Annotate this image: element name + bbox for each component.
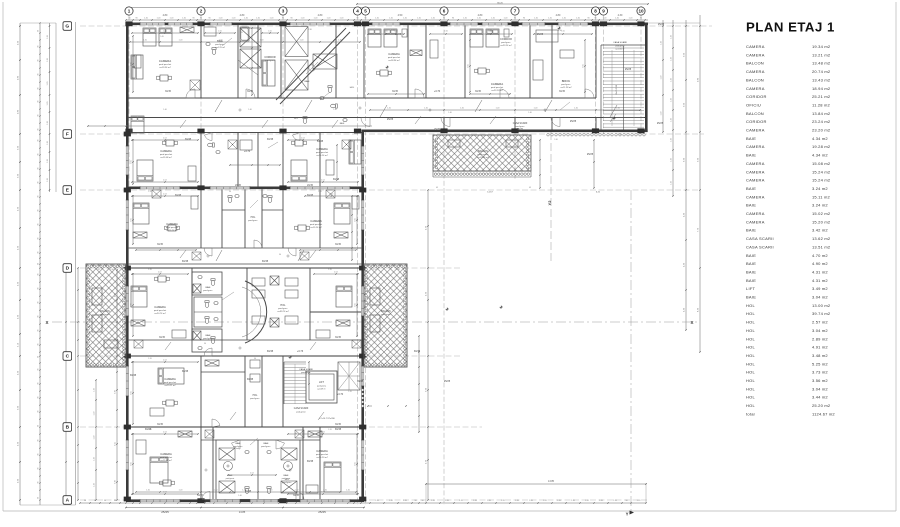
svg-text:90: 90 [135, 18, 137, 20]
svg-text:90: 90 [523, 18, 525, 20]
svg-text:1.20: 1.20 [328, 429, 332, 431]
svg-text:CAMERA: CAMERA [316, 449, 328, 453]
svg-text:90: 90 [254, 358, 256, 360]
svg-text:3.90: 3.90 [115, 480, 117, 484]
svg-text:HOL: HOL [746, 336, 756, 341]
svg-text:BAIE: BAIE [746, 269, 756, 274]
svg-text:25/25: 25/25 [658, 23, 665, 26]
svg-text:4.52: 4.52 [301, 138, 305, 140]
svg-text:pard.parchet: pard.parchet [388, 56, 401, 59]
svg-text:X: X [45, 320, 48, 325]
svg-text:4.52: 4.52 [334, 272, 338, 274]
svg-text:CAMERA: CAMERA [160, 452, 172, 456]
svg-text:LIFT: LIFT [319, 381, 324, 384]
svg-text:pard.gres.: pard.gres. [381, 313, 391, 316]
svg-text:1.20: 1.20 [182, 18, 186, 20]
svg-text:BAIE: BAIE [284, 474, 290, 477]
corridor walls top wing [129, 97, 596, 99]
svg-text:pard.gresie: pard.gresie [478, 153, 490, 156]
top wing bottom wall right part [364, 130, 648, 133]
svg-text:23.24 m2: 23.24 m2 [812, 119, 831, 124]
left grid connector [75, 22, 77, 505]
staircase top right [600, 45, 602, 130]
svg-text:5.45: 5.45 [391, 30, 395, 32]
svg-text:BAIE: BAIE [746, 253, 756, 258]
svg-text:30/45: 30/45 [307, 194, 314, 197]
svg-text:4.80: 4.80 [163, 14, 168, 17]
svg-text:90: 90 [38, 140, 40, 142]
structural piers [125, 21, 132, 26]
svg-text:1.20: 1.20 [661, 112, 663, 116]
svg-text:3.05: 3.05 [583, 64, 585, 68]
svg-text:CAMERA: CAMERA [746, 69, 765, 74]
bathroom G2 [204, 27, 216, 36]
svg-text:1.20: 1.20 [47, 82, 49, 86]
balcony hatch B3 right [364, 264, 407, 367]
svg-text:3.04 m2: 3.04 m2 [812, 386, 828, 391]
svg-text:3.05: 3.05 [468, 64, 470, 68]
svg-text:25/25: 25/25 [625, 68, 632, 71]
svg-text:CAMERA: CAMERA [154, 305, 166, 309]
svg-text:4.52: 4.52 [321, 180, 325, 182]
svg-text:36/45: 36/45 [357, 380, 364, 383]
B1 bottom railing [433, 170, 531, 172]
svg-text:1.20: 1.20 [576, 18, 580, 20]
svg-text:4.80: 4.80 [478, 14, 483, 17]
svg-text:15.08 m2: 15.08 m2 [812, 161, 831, 166]
svg-text:a=23.24 m²: a=23.24 m² [500, 44, 511, 47]
svg-text:25/25: 25/25 [587, 153, 594, 156]
windows E wall [140, 186, 180, 189]
svg-text:25/25: 25/25 [434, 128, 441, 131]
svg-text:1.20: 1.20 [148, 429, 152, 431]
vertical grid dashed lines [128, 15, 130, 192]
svg-text:30/45: 30/45 [182, 260, 189, 263]
svg-text:45: 45 [436, 187, 438, 189]
svg-text:1.20: 1.20 [375, 18, 379, 20]
svg-text:pard.parchet: pard.parchet [160, 153, 173, 156]
svg-text:a=20.74 m²: a=20.74 m² [154, 312, 165, 315]
svg-text:CASA SCARII: CASA SCARII [513, 122, 528, 125]
svg-text:4.91 m2: 4.91 m2 [812, 345, 828, 350]
svg-text:BALCON: BALCON [746, 111, 764, 116]
svg-text:4.70 m2: 4.70 m2 [812, 253, 828, 258]
core bathroom fixtures right of grid3 [328, 86, 332, 93]
svg-text:HOL: HOL [280, 304, 286, 307]
svg-text:1.20: 1.20 [574, 108, 578, 110]
svg-text:5.25 m2: 5.25 m2 [812, 361, 828, 366]
furniture B-A rooms [150, 457, 168, 483]
svg-text:CAMERA: CAMERA [746, 194, 765, 199]
svg-text:1.20: 1.20 [47, 102, 49, 106]
svg-text:4.80: 4.80 [240, 14, 245, 17]
svg-text:90: 90 [38, 497, 40, 499]
svg-text:1.20: 1.20 [616, 108, 620, 110]
svg-text:90: 90 [421, 500, 423, 502]
svg-text:1.50: 1.50 [268, 31, 272, 33]
diagonal corridor [276, 28, 346, 100]
svg-text:3.42 m2: 3.42 m2 [812, 228, 828, 233]
svg-text:HOL: HOL [746, 320, 756, 325]
extra density: wall-side vertical beds [131, 116, 144, 133]
svg-text:30/45: 30/45 [130, 374, 137, 377]
svg-text:3.24 m2: 3.24 m2 [812, 203, 828, 208]
svg-text:CAMERA: CAMERA [746, 169, 765, 174]
svg-text:9: 9 [602, 9, 605, 14]
svg-text:30/45: 30/45 [267, 138, 274, 141]
svg-text:90: 90 [128, 18, 130, 20]
svg-text:pard.gres.: pard.gres. [278, 307, 288, 310]
svg-text:13.62 m2: 13.62 m2 [812, 236, 831, 241]
svg-text:pard.parchet: pard.parchet [310, 223, 323, 226]
svg-text:90: 90 [38, 210, 40, 212]
svg-text:1.20: 1.20 [487, 500, 491, 502]
svg-text:BAIE: BAIE [746, 261, 756, 266]
svg-text:CAMERA: CAMERA [746, 52, 765, 57]
svg-text:15.11 m2: 15.11 m2 [812, 194, 831, 199]
svg-text:1.50: 1.50 [384, 31, 388, 33]
svg-text:90: 90 [38, 252, 40, 254]
E-D partitions [200, 189, 202, 248]
svg-text:1.20: 1.20 [431, 18, 435, 20]
top secondary dimension line [126, 19, 648, 21]
svg-text:90: 90 [38, 46, 40, 48]
svg-text:90: 90 [208, 18, 210, 20]
svg-text:pard.gresie: pard.gresie [616, 45, 625, 47]
svg-text:pard.gres.: pard.gres. [250, 397, 260, 400]
svg-text:a=3.49 m²: a=3.49 m² [317, 388, 326, 391]
svg-text:pard.parchet: pard.parchet [316, 453, 329, 456]
svg-text:1.20: 1.20 [47, 121, 49, 125]
svg-text:1.20: 1.20 [424, 108, 428, 110]
svg-text:4.30: 4.30 [558, 30, 562, 32]
tower row walls D C B [129, 267, 362, 269]
svg-text:90: 90 [38, 344, 40, 346]
svg-text:4.90 m2: 4.90 m2 [812, 261, 828, 266]
svg-text:1.20: 1.20 [534, 18, 538, 20]
svg-text:BAIE: BAIE [340, 122, 345, 125]
svg-text:a=11.28 m²: a=11.28 m² [561, 86, 572, 89]
svg-text:30/45: 30/45 [159, 336, 166, 339]
svg-text:CAMERA: CAMERA [746, 144, 765, 149]
svg-text:4.31 m2: 4.31 m2 [812, 278, 828, 283]
svg-text:13.00 m2: 13.00 m2 [812, 303, 831, 308]
svg-text:1.20: 1.20 [47, 159, 49, 163]
svg-text:11.28 m2: 11.28 m2 [812, 102, 831, 107]
left lower dim chains [65, 268, 67, 500]
svg-text:pard.gres.: pard.gres. [203, 289, 213, 292]
svg-text:2.89 m2: 2.89 m2 [812, 336, 828, 341]
svg-text:a=4.70 m²: a=4.70 m² [215, 46, 225, 49]
svg-text:5.45: 5.45 [488, 30, 492, 32]
svg-text:4.31 m2: 4.31 m2 [812, 269, 828, 274]
svg-text:BAIE: BAIE [746, 203, 756, 208]
bottom tower dimension [126, 507, 364, 509]
svg-text:30/45: 30/45 [475, 90, 482, 93]
svg-text:90: 90 [279, 254, 281, 256]
svg-text:1.20: 1.20 [637, 500, 641, 502]
svg-text:2.40: 2.40 [554, 139, 558, 141]
svg-text:90: 90 [38, 74, 40, 76]
svg-text:1.20: 1.20 [661, 76, 663, 80]
svg-text:90: 90 [38, 468, 40, 470]
balcony loungers [92, 288, 102, 305]
svg-text:1.20: 1.20 [661, 41, 663, 45]
stairs C-B left flight [283, 362, 285, 404]
svg-text:CORIDOR: CORIDOR [746, 119, 767, 124]
svg-text:HOL: HOL [746, 370, 756, 375]
svg-text:BALCON: BALCON [100, 310, 110, 313]
svg-text:90: 90 [38, 154, 40, 156]
svg-text:4.80: 4.80 [318, 14, 323, 17]
svg-text:30/45: 30/45 [392, 90, 399, 93]
svg-text:1.20: 1.20 [515, 500, 519, 502]
svg-text:80.26: 80.26 [497, 2, 503, 4]
svg-text:1.20: 1.20 [460, 108, 464, 110]
svg-text:pard.gres.: pard.gres. [100, 313, 110, 316]
svg-text:1.20: 1.20 [219, 40, 223, 42]
svg-text:1.20: 1.20 [671, 98, 673, 102]
svg-text:90: 90 [290, 18, 292, 20]
svg-text:HOL: HOL [251, 217, 256, 219]
svg-text:1.20: 1.20 [214, 490, 218, 492]
svg-text:1.95: 1.95 [239, 32, 243, 34]
svg-text:39.74 m2: 39.74 m2 [812, 311, 831, 316]
svg-text:BIROU: BIROU [562, 79, 571, 83]
section line Y2 [550, 132, 552, 262]
svg-text:18x15.5/28: 18x15.5/28 [616, 84, 618, 95]
svg-text:HOL: HOL [746, 378, 756, 383]
svg-text:90: 90 [625, 500, 627, 502]
svg-text:HOL: HOL [746, 395, 756, 400]
svg-text:30/45: 30/45 [245, 490, 252, 493]
svg-text:BAIE: BAIE [746, 186, 756, 191]
lift [306, 371, 337, 403]
railing dots below wing [547, 134, 550, 137]
svg-text:CAMERA: CAMERA [160, 149, 172, 153]
svg-text:4.52: 4.52 [163, 360, 167, 362]
svg-text:15.24 m2: 15.24 m2 [812, 169, 831, 174]
B1 side dots [435, 138, 437, 140]
west exterior wall [126, 23, 129, 503]
svg-text:a=13.84 m²: a=13.84 m² [477, 156, 488, 159]
windows tower east wall [361, 146, 364, 175]
svg-text:1.20: 1.20 [543, 500, 547, 502]
svg-text:90: 90 [38, 88, 40, 90]
svg-text:BAIE: BAIE [264, 442, 270, 445]
svg-text:25.21 m2: 25.21 m2 [812, 94, 831, 99]
svg-text:pard.parchet: pard.parchet [160, 456, 173, 459]
svg-text:90: 90 [38, 274, 40, 276]
svg-text:13.51 m2: 13.51 m2 [812, 244, 831, 249]
svg-text:4.52: 4.52 [163, 194, 167, 196]
svg-text:1.20: 1.20 [562, 18, 566, 20]
svg-text:Y2: Y2 [547, 200, 552, 206]
svg-text:4.52: 4.52 [321, 432, 325, 434]
svg-text:1.20: 1.20 [389, 18, 393, 20]
svg-text:pard.gres.: pard.gres. [501, 41, 511, 44]
svg-text:pard.parchet: pard.parchet [159, 63, 172, 66]
svg-text:a=13.62 m²: a=13.62 m² [615, 47, 625, 50]
svg-text:10: 10 [638, 9, 644, 14]
svg-text:pard.parchet: pard.parchet [154, 309, 167, 312]
svg-text:3.05: 3.05 [131, 160, 133, 164]
svg-text:20/45: 20/45 [235, 184, 242, 187]
svg-text:a=15.08 m²: a=15.08 m² [160, 156, 171, 159]
east rail dots [362, 389, 364, 391]
svg-text:BALCON: BALCON [478, 150, 488, 153]
svg-text:1.20: 1.20 [327, 18, 331, 20]
svg-text:30/45: 30/45 [559, 90, 566, 93]
svg-text:4.50: 4.50 [398, 14, 403, 17]
svg-text:CORIDOR: CORIDOR [746, 94, 767, 99]
furniture F-E rooms [137, 160, 153, 181]
svg-text:3.05: 3.05 [355, 303, 357, 307]
svg-text:90: 90 [84, 500, 86, 502]
svg-text:1.20: 1.20 [94, 412, 96, 416]
svg-text:1.20: 1.20 [459, 500, 463, 502]
svg-text:HOL: HOL [746, 345, 756, 350]
svg-text:1.20: 1.20 [346, 490, 350, 492]
svg-text:30/45: 30/45 [335, 336, 342, 339]
svg-text:C: C [66, 354, 70, 360]
svg-text:3.05: 3.05 [131, 303, 133, 307]
svg-text:1.20: 1.20 [295, 490, 299, 492]
top wing top wall [126, 23, 648, 26]
svg-text:OFICIU: OFICIU [746, 102, 761, 107]
bottom right dimension [426, 483, 646, 485]
left dimension lines [19, 23, 21, 505]
svg-text:a=15.24 m²: a=15.24 m² [166, 229, 177, 232]
svg-text:90: 90 [38, 356, 40, 358]
corridor diagonal door leaves extra [180, 120, 186, 128]
svg-text:1.50: 1.50 [561, 31, 565, 33]
svg-text:90: 90 [38, 454, 40, 456]
svg-text:25.20 m2: 25.20 m2 [812, 403, 831, 408]
svg-text:HOL: HOL [746, 386, 756, 391]
micro dims tower bands [132, 195, 198, 197]
svg-text:1.20: 1.20 [148, 358, 152, 360]
svg-text:3.05: 3.05 [131, 462, 133, 466]
svg-text:3.04 m2: 3.04 m2 [812, 295, 828, 300]
svg-text:30/45: 30/45 [262, 260, 269, 263]
svg-text:25/25: 25/25 [387, 118, 394, 121]
furniture D-C rooms [131, 286, 147, 307]
stairs C-B winder [338, 362, 360, 390]
svg-text:pard.gres.: pard.gres. [561, 83, 571, 86]
svg-text:a=19.34 m²: a=19.34 m² [159, 66, 170, 69]
svg-text:4.52: 4.52 [163, 138, 167, 140]
svg-text:1.20: 1.20 [143, 40, 147, 42]
svg-text:90: 90 [204, 343, 206, 345]
svg-text:4.34 m2: 4.34 m2 [812, 136, 828, 141]
svg-text:1.50: 1.50 [218, 31, 222, 33]
svg-text:a=23.20 m²: a=23.20 m² [491, 89, 502, 92]
svg-text:1.20: 1.20 [603, 18, 607, 20]
svg-text:90: 90 [38, 288, 40, 290]
svg-text:pard.parchet: pard.parchet [166, 226, 179, 229]
svg-text:a=15.11 m²: a=15.11 m² [165, 384, 176, 387]
svg-text:4.52: 4.52 [163, 180, 167, 182]
svg-text:A: A [66, 498, 70, 504]
svg-text:BAIE: BAIE [305, 80, 311, 83]
svg-text:LIFT: LIFT [746, 286, 756, 291]
svg-text:2.30: 2.30 [308, 29, 312, 31]
svg-text:1.20: 1.20 [504, 18, 508, 20]
svg-text:CAMERA: CAMERA [746, 128, 765, 133]
svg-text:1.20: 1.20 [179, 490, 183, 492]
svg-text:1.20: 1.20 [242, 490, 246, 492]
leader line labels near cores [222, 38, 232, 46]
svg-text:3.24 m2: 3.24 m2 [812, 186, 828, 191]
svg-text:1.20: 1.20 [300, 40, 304, 42]
svg-text:1.20: 1.20 [491, 18, 495, 20]
D-C partitions [191, 268, 193, 340]
svg-text:CAMERA: CAMERA [491, 82, 503, 86]
svg-text:HOL: HOL [253, 395, 258, 397]
svg-text:13.85: 13.85 [548, 480, 555, 483]
svg-text:25/25: 25/25 [570, 120, 577, 123]
F-E band partitions [129, 132, 364, 134]
svg-text:30/45: 30/45 [175, 194, 182, 197]
svg-text:30/45: 30/45 [267, 350, 274, 353]
svg-text:1.20: 1.20 [256, 18, 260, 20]
svg-text:30/45: 30/45 [157, 423, 164, 426]
svg-text:90: 90 [587, 18, 589, 20]
svg-text:1.20: 1.20 [671, 35, 673, 39]
svg-text:CAMERA: CAMERA [746, 44, 765, 49]
svg-text:CAMERA: CAMERA [746, 178, 765, 183]
svg-text:1.20: 1.20 [613, 500, 617, 502]
svg-text:pard.parchet: pard.parchet [164, 381, 177, 384]
C-B partitions [200, 356, 202, 427]
svg-text:90: 90 [38, 30, 40, 32]
svg-text:BAIE: BAIE [746, 295, 756, 300]
svg-text:CAMERA: CAMERA [746, 219, 765, 224]
svg-text:1.20: 1.20 [529, 500, 533, 502]
svg-text:90: 90 [38, 330, 40, 332]
svg-text:1.20: 1.20 [389, 500, 393, 502]
svg-text:1.50: 1.50 [458, 139, 462, 141]
svg-text:90: 90 [38, 302, 40, 304]
svg-text:3.04 m2: 3.04 m2 [812, 328, 828, 333]
svg-text:pard.piatra: pard.piatra [317, 385, 327, 388]
svg-text:1.20: 1.20 [338, 40, 342, 42]
svg-text:+3.70: +3.70 [244, 150, 251, 153]
svg-text:1.20: 1.20 [431, 500, 435, 502]
svg-text:4.52: 4.52 [163, 492, 167, 494]
svg-text:a=39.74 m²: a=39.74 m² [277, 310, 288, 313]
svg-text:pard.parchet: pard.parchet [316, 151, 329, 154]
svg-text:15.02 m2: 15.02 m2 [812, 211, 831, 216]
extra X wardrobes at partitions [190, 80, 200, 90]
svg-text:23.20 m2: 23.20 m2 [812, 128, 831, 133]
svg-text:4.80: 4.80 [556, 14, 561, 17]
svg-text:90: 90 [38, 482, 40, 484]
svg-text:1.20: 1.20 [618, 134, 622, 136]
svg-text:90: 90 [38, 383, 40, 385]
svg-text:BALCON: BALCON [746, 77, 764, 82]
svg-text:90: 90 [38, 101, 40, 103]
svg-text:90: 90 [38, 411, 40, 413]
svg-text:4.52: 4.52 [250, 473, 254, 475]
right dimension lines [662, 20, 664, 132]
svg-text:1.20: 1.20 [445, 500, 449, 502]
top overall dimension line [357, 3, 648, 5]
svg-text:CASA SCARII: CASA SCARII [746, 244, 774, 249]
svg-text:B: B [66, 425, 70, 431]
svg-text:CASA SCARII: CASA SCARII [746, 236, 774, 241]
